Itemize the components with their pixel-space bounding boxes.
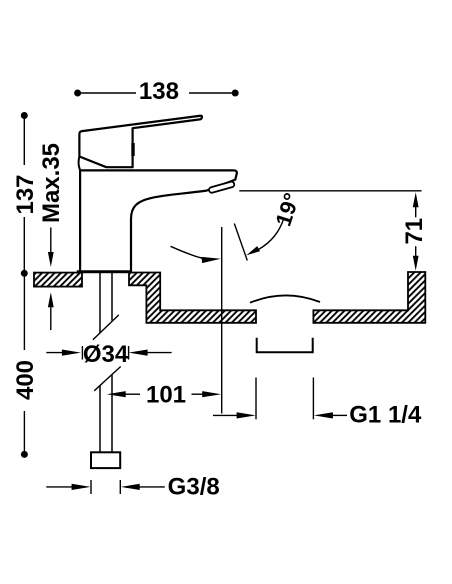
dim 71 <box>401 192 428 270</box>
svg-text:19°: 19° <box>270 190 304 229</box>
svg-text:G1 1/4: G1 1/4 <box>349 402 422 429</box>
dim 138 <box>74 78 239 105</box>
handle joint mark <box>131 143 134 156</box>
basin right hatched section <box>313 272 425 323</box>
svg-text:101: 101 <box>146 382 186 409</box>
angle arc left segment <box>171 246 205 258</box>
dim diameter 34 <box>46 341 171 368</box>
handle lever and cap <box>79 116 202 167</box>
dim 400 <box>12 276 39 458</box>
svg-text:71: 71 <box>401 218 428 245</box>
svg-text:138: 138 <box>139 78 179 105</box>
pipe break marks <box>93 315 119 340</box>
dim 137 <box>12 112 39 277</box>
deck right and basin left hatched section <box>129 273 256 323</box>
supply pipe <box>99 273 101 333</box>
svg-text:400: 400 <box>12 360 39 400</box>
svg-text:Max.35: Max.35 <box>38 143 65 223</box>
faucet body and spout outline <box>80 170 237 272</box>
dim G1 1/4 <box>213 378 422 429</box>
aerator <box>208 181 235 193</box>
deck left hatched section <box>34 273 82 287</box>
basin bottom arc <box>250 295 320 302</box>
angle arc right segment <box>259 219 284 250</box>
G3/8 nut <box>91 452 120 468</box>
19 degree tilted line <box>234 224 247 261</box>
dim G3/8 <box>46 474 219 501</box>
dim Max.35 <box>38 143 65 330</box>
dim 101 <box>107 382 222 409</box>
stream axis line <box>221 227 223 414</box>
svg-text:Ø34: Ø34 <box>83 341 129 368</box>
svg-text:G3/8: G3/8 <box>168 474 220 501</box>
spout height reference line <box>239 190 421 192</box>
faucet base line <box>77 270 131 273</box>
drain bracket <box>257 338 313 353</box>
svg-text:137: 137 <box>12 174 39 214</box>
handle front arc <box>79 157 81 171</box>
